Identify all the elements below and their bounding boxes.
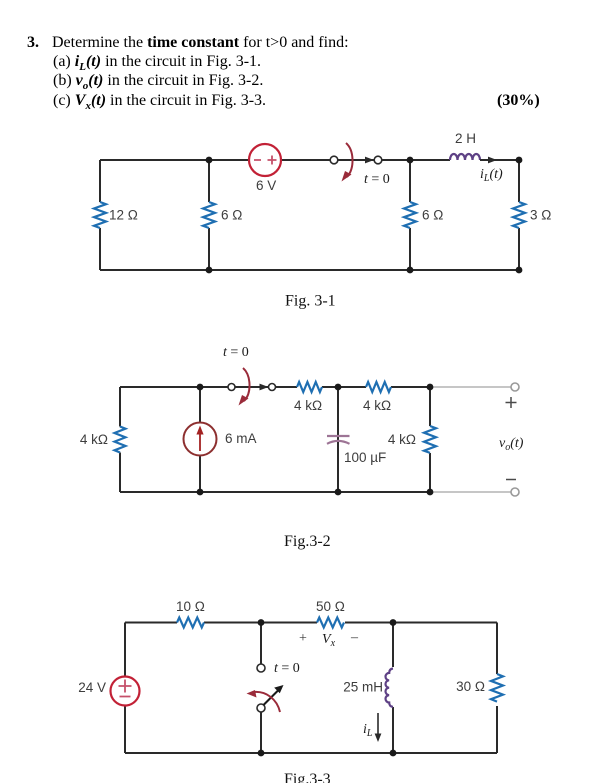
- svg-text:Fig. 3-1: Fig. 3-1: [285, 293, 336, 310]
- svg-text:t = 0: t = 0: [364, 172, 390, 187]
- svg-text:Vx: Vx: [322, 632, 336, 649]
- svg-text:10 Ω: 10 Ω: [176, 599, 205, 614]
- svg-text:t = 0: t = 0: [223, 345, 249, 360]
- svg-text:3 Ω: 3 Ω: [530, 208, 551, 223]
- svg-text:iL(t): iL(t): [480, 167, 503, 184]
- svg-text:2 H: 2 H: [455, 131, 476, 146]
- svg-text:vo(t): vo(t): [499, 436, 524, 453]
- svg-text:4 kΩ: 4 kΩ: [80, 432, 108, 447]
- svg-text:12 Ω: 12 Ω: [109, 208, 138, 223]
- svg-text:6 V: 6 V: [256, 178, 276, 193]
- svg-text:6 mA: 6 mA: [225, 431, 257, 446]
- svg-text:+: +: [299, 631, 307, 646]
- svg-text:6 Ω: 6 Ω: [422, 208, 443, 223]
- svg-text:50 Ω: 50 Ω: [316, 599, 345, 614]
- svg-text:24 V: 24 V: [78, 680, 106, 695]
- svg-text:25 mH: 25 mH: [343, 680, 383, 695]
- svg-text:–: –: [350, 630, 359, 645]
- svg-text:4 kΩ: 4 kΩ: [294, 398, 322, 413]
- svg-text:4 kΩ: 4 kΩ: [363, 398, 391, 413]
- svg-text:30 Ω: 30 Ω: [456, 679, 485, 694]
- svg-text:100 µF: 100 µF: [344, 450, 386, 465]
- svg-text:4 kΩ: 4 kΩ: [388, 432, 416, 447]
- svg-text:Fig.3-2: Fig.3-2: [284, 533, 331, 550]
- svg-text:t = 0: t = 0: [274, 661, 300, 676]
- svg-text:Fig.3-3: Fig.3-3: [284, 771, 331, 783]
- svg-text:6 Ω: 6 Ω: [221, 208, 242, 223]
- svg-text:iL: iL: [363, 722, 373, 739]
